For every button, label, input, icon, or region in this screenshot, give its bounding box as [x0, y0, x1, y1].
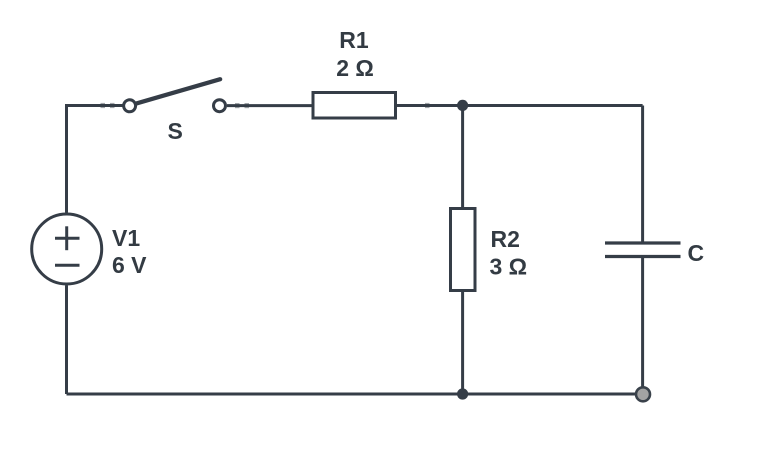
svg-text:R2: R2 [491, 226, 520, 252]
wire left rail top (V1 top to top-left corner) [67, 106, 123, 213]
resistor R2 [451, 209, 528, 291]
switch pole terminal circle [124, 100, 136, 112]
wire left rail bottom (V1 bottom to bottom-left corner) [65, 285, 68, 394]
svg-text:6 V: 6 V [112, 252, 147, 278]
wire middle branch upper (junction to R2 top) [461, 105, 464, 208]
minus sign [55, 264, 80, 267]
svg-text:C: C [688, 240, 705, 266]
wire middle branch lower (R2 bottom to bottom junction) [461, 291, 464, 395]
capacitor C [605, 240, 704, 266]
switch S [124, 79, 226, 144]
resistor R1 [313, 27, 396, 118]
terminal node (bottom-right, gray) [636, 387, 650, 401]
top plate [605, 241, 681, 244]
node junction top (R1/R2/C) [457, 100, 468, 111]
svg-text:2 Ω: 2 Ω [336, 55, 374, 81]
voltage source V1 [32, 214, 147, 284]
plus sign [55, 237, 80, 240]
bottom plate [605, 255, 681, 258]
svg-text:R1: R1 [339, 27, 369, 53]
wire right rail lower (capacitor bottom plate to terminal) [641, 257, 644, 389]
switch throw terminal circle [214, 100, 226, 112]
node junction bottom [457, 388, 468, 399]
svg-text:3 Ω: 3 Ω [490, 254, 528, 280]
svg-text:S: S [168, 118, 183, 144]
wire top: switch to R1 [227, 104, 312, 107]
svg-text:V1: V1 [112, 225, 140, 251]
wire bottom rail [67, 393, 637, 396]
wire top: R1 to top-right corner [397, 104, 643, 107]
wire right rail upper (corner to capacitor top plate) [641, 106, 644, 244]
switch blade [135, 79, 220, 104]
wire connection nubs [101, 103, 430, 108]
